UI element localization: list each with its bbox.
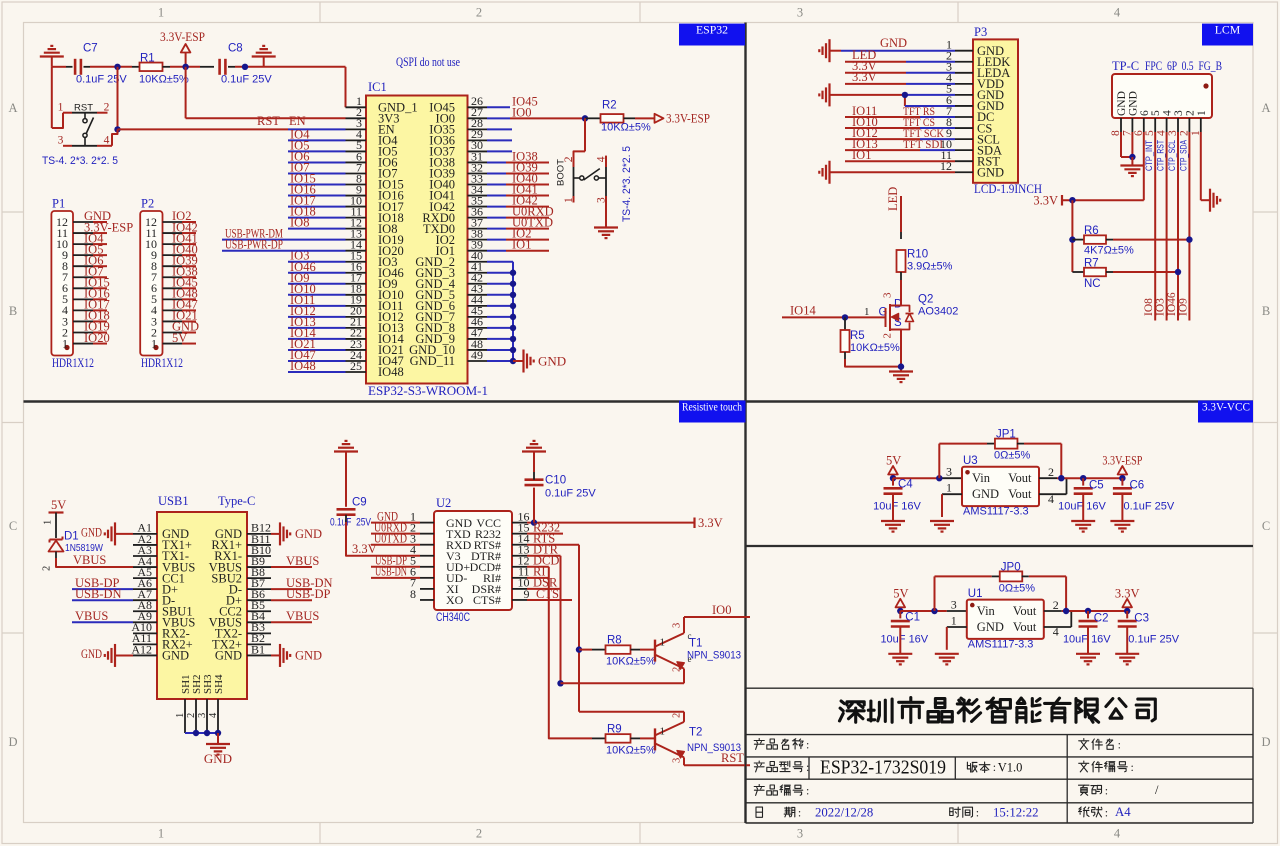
svg-text:3: 3 [1173,110,1185,116]
junction DTR-T1e [557,680,563,686]
U3 GND pin to ground [942,493,962,495]
ground (C4) [892,494,894,521]
svg-text:1: 1 [951,613,957,627]
wire net 3.3V (P3 pin3) [845,72,906,74]
wire net RI [527,577,549,579]
svg-text:1: 1 [62,336,68,350]
USB1 pin A1 [133,533,157,535]
junction C3 [1124,608,1130,614]
svg-text:B: B [9,304,17,318]
USB1 pin B6 [247,599,271,601]
junction GND bus [510,292,516,298]
ground (C5) [1082,494,1084,521]
svg-text:GND: GND [972,487,999,501]
wire C9 to U2 pin4 (3.3V) [345,515,347,522]
junction TP-C gnd [1129,154,1135,160]
wire net VBUS (A9) [72,621,133,623]
U2 pin 5 UD+ [420,566,434,568]
svg-text::: : [1105,784,1108,798]
svg-text:IO14: IO14 [790,304,816,318]
svg-text:IO20: IO20 [84,331,110,345]
svg-text:3.3V-ESP: 3.3V-ESP [160,30,205,44]
svg-text:AO3402: AO3402 [918,306,958,318]
net flag 3.3V (touch) [1061,195,1063,206]
svg-text:R8: R8 [607,635,622,647]
USB1 pin A5 [133,577,157,579]
IC1 pin 16 IO46 [346,272,367,274]
IC1 pin 11 IO18 [346,217,367,219]
svg-text:IC1: IC1 [368,80,387,94]
svg-text:Type-C: Type-C [218,494,255,508]
svg-text::: : [993,760,996,774]
wire net IO41 [487,195,506,197]
IC1 pin 40 GND_2 [468,261,488,263]
resistor R6 [1072,239,1084,241]
svg-text:GND: GND [880,36,907,50]
U2 pin 7 XI [420,588,434,590]
svg-text::: : [1131,760,1134,774]
svg-text:CTP_SDA: CTP_SDA [1178,139,1188,171]
U2 pin 16 VCC [512,522,527,524]
svg-text:GND: GND [538,353,566,368]
svg-text:ESP32-S3-WROOM-1: ESP32-S3-WROOM-1 [368,384,488,398]
svg-text:1: 1 [563,197,575,203]
wire 3.3V rail [1062,199,1144,201]
svg-text::: : [806,760,809,774]
svg-text:GND: GND [215,649,242,663]
svg-text:49: 49 [471,348,483,362]
P3 pin 9 SCL [955,138,973,140]
svg-text:XO: XO [446,593,464,607]
svg-text:10KΩ±5%: 10KΩ±5% [606,656,656,668]
wire T2 collector [579,711,684,713]
P3 pin 7 DC [955,116,973,118]
svg-text:EN: EN [289,114,306,128]
wire net IO6 [288,161,346,163]
svg-text:25: 25 [350,359,362,373]
USB1 pin A7 [133,599,157,601]
wire A12 gnd [115,654,133,656]
wire net DSR [527,588,561,590]
capacitor C5 [1080,475,1086,481]
svg-text:Resistive touch: Resistive touch [682,400,742,414]
svg-text:8: 8 [410,587,416,601]
TP-C pin 2 [1188,118,1190,132]
svg-text:IO0: IO0 [712,603,731,617]
svg-text:U3: U3 [963,455,978,467]
wire net USB-DP (A6) [72,588,133,590]
section label Resistive touch [679,401,746,423]
svg-text:3: 3 [946,465,952,479]
svg-text:IO48: IO48 [378,365,404,379]
svg-text:0.1uF 25V: 0.1uF 25V [330,517,371,529]
resistor R10 [897,250,906,272]
svg-text:RST: RST [257,114,280,128]
wire net DCD [527,566,549,568]
IC1 pin 9 IO16 [346,195,367,197]
IC1 pin 41 GND_3 [468,272,488,274]
ground (FG) [1209,189,1211,212]
svg-text:TS-4. 2*3. 2*2. 5: TS-4. 2*3. 2*2. 5 [42,155,118,167]
U2 pin 2 TXD [420,533,434,535]
svg-text:10KΩ±5%: 10KΩ±5% [606,745,656,757]
capacitor C8 [218,59,221,75]
svg-text:U0TXD: U0TXD [374,532,407,546]
junction R6 [1069,236,1075,242]
ground (C2) [1087,627,1089,654]
wire R8 to T1 base [631,649,641,651]
svg-text:CTP_SCL: CTP_SCL [1167,140,1177,171]
svg-text:1: 1 [158,6,164,20]
svg-text:VBUS: VBUS [73,553,106,567]
svg-text:R6: R6 [1084,225,1099,237]
wire net IO1 [487,250,506,252]
svg-text:VBUS: VBUS [286,554,319,568]
U2 pin 12 DCD# [512,566,527,568]
resistor R8 [579,649,592,651]
svg-text:GND: GND [295,527,322,541]
wire CTP_SCL (pin3) [1177,132,1179,321]
net flag 3.3V (U2) [693,518,695,529]
svg-text:LCM: LCM [1215,23,1241,37]
svg-text::: : [1105,806,1108,820]
IC1 pin 12 IO8 [346,228,367,230]
wire RTS vertical [578,545,580,712]
op-amp U3 AMS1117-3.3 body [962,467,1039,506]
IC1 pin 21 IO13 [346,327,367,329]
wire net IO4 [288,139,346,141]
svg-text:0Ω±5%: 0Ω±5% [999,582,1035,594]
wire bus to GND symbol [513,360,524,362]
svg-text:R1: R1 [140,53,155,65]
wire net IO3 [288,261,346,263]
wire net RST (T2 emitter) [684,764,750,766]
svg-text:CTS: CTS [536,587,559,601]
IC1 pin 44 GND_6 [468,305,488,307]
svg-text:IO9: IO9 [1177,298,1189,316]
U2 pin 9 CTS# [512,599,527,601]
IC1 pin 10 IO17 [346,206,367,208]
wire net USB-DP (B6) [271,599,312,601]
wire net IO1 (P3 pin11) [845,160,955,162]
svg-text:C3: C3 [1134,612,1149,624]
IC1 pin 24 IO47 [346,360,367,362]
wire rail down to IC pin1 [345,67,347,108]
svg-text:3.3V-ESP: 3.3V-ESP [666,112,710,126]
TP-C pin 5 [1154,118,1156,132]
wire GND bus pins 40-49 [487,261,513,263]
wire T1 emitter [561,682,685,684]
IC1 pin 2 3V3 [346,117,367,119]
wire 5V to U1 Vin [900,610,947,612]
svg-text:Vout: Vout [1008,471,1032,485]
junction shield [193,730,199,736]
svg-text:C6: C6 [1130,480,1145,492]
svg-text:10uF 16V: 10uF 16V [873,501,921,513]
junction switch-EN [114,126,120,132]
svg-text:CTP_INT: CTP_INT [1144,140,1154,171]
svg-text:R5: R5 [850,330,865,342]
ground (Q2) [889,370,913,372]
U2 pin 11 RI# [512,577,527,579]
USB1 pin A3 [133,555,157,557]
wire net IO46 [288,272,346,274]
junction IO0-R2 [582,115,588,121]
svg-text::: : [806,738,809,752]
wire net LED (P3 pin2) [845,61,906,63]
svg-text:3: 3 [797,6,803,20]
USB1 pin B5 [247,610,271,612]
svg-text:Vout: Vout [1013,604,1037,618]
svg-text:4: 4 [1053,625,1059,639]
svg-text:1: 1 [864,306,870,318]
U2 pin 10 DSR# [512,588,527,590]
IC1 pin 30 IO37 [468,150,488,152]
svg-text:GND: GND [81,525,102,539]
svg-text:TP-C: TP-C [1112,59,1139,73]
IC1 pin 33 IO40 [468,184,488,186]
TP-C pin 7 [1131,118,1133,132]
svg-text:NPN_S9013: NPN_S9013 [687,650,741,662]
svg-text:R2: R2 [602,100,617,112]
svg-text:R10: R10 [907,249,928,261]
ground (U1) [935,653,959,655]
ground (A1) [114,522,116,545]
wire net IO13 / TFT SDI [845,149,920,151]
svg-text:U2: U2 [436,496,451,510]
wire net USB-PWR-DM (IO19) [222,239,346,241]
svg-text:ESP32-1732S019: ESP32-1732S019 [820,757,946,779]
USB1 pin A4 [133,566,157,568]
wire net IO40 [487,184,506,186]
svg-text:VBUS: VBUS [286,609,319,623]
svg-text:BOOT: BOOT [556,159,567,186]
USB1 pin B8 [247,577,271,579]
wire net IO16 [288,195,346,197]
IC1 pin 17 IO9 [346,283,367,285]
USB1 pin A9 [133,621,157,623]
TP-C pin 3 [1177,118,1179,132]
label 日期 [756,807,763,817]
wire switch pin4 [112,129,118,145]
P3 pin 6 GND [955,105,973,107]
wire net IO14 [288,338,346,340]
svg-text:IO1: IO1 [852,148,871,162]
ground (C1) [899,627,901,654]
svg-text:6: 6 [1139,110,1151,116]
svg-text:5V: 5V [172,331,187,345]
svg-text:4: 4 [208,712,219,718]
svg-text:Vin: Vin [972,471,991,485]
svg-text:C4: C4 [898,479,913,491]
svg-text:B: B [1262,304,1270,318]
IC1 pin 32 IO39 [468,172,488,174]
svg-text:1: 1 [946,481,952,495]
svg-text:Vin: Vin [977,604,996,618]
label 产品名称 [758,739,760,740]
svg-text:NC: NC [1084,278,1101,290]
label 文件名 [1083,739,1085,740]
svg-text:LED: LED [886,187,900,211]
wire P3 pins 5-6 to ground [830,94,905,96]
capacitor C10 [533,488,535,523]
capacitor C7 [74,59,77,75]
svg-text:10KΩ±5%: 10KΩ±5% [601,122,651,134]
USB1 pin B1 [247,654,271,656]
wire net IO42 [487,206,506,208]
svg-text:USB1: USB1 [158,494,189,508]
ground (BOOT) [594,226,618,228]
svg-text:IO1: IO1 [512,238,531,252]
wire net USB-PWR-DP (IO20) [222,250,346,252]
wire R9 to T2 base [631,737,641,739]
IC1 pin 8 IO15 [346,184,367,186]
wire VCC to 3.3V flag [527,522,694,524]
wire net R232 [527,533,563,535]
svg-text:2022/12/28: 2022/12/28 [815,806,873,820]
USB1 pin A10 [133,632,157,634]
wire net USB-DN (A7) [72,599,133,601]
TP-C pin 1 [1200,118,1202,132]
svg-text:10uF 16V: 10uF 16V [880,633,928,645]
svg-text:10KΩ±5%: 10KΩ±5% [850,342,900,354]
svg-text:AMS1117-3.3: AMS1117-3.3 [968,638,1034,650]
wire R7 to CTP_SCL [1106,271,1113,273]
svg-text:4: 4 [1114,6,1121,20]
wire net IO9 [288,283,346,285]
svg-text:0.1uF 25V: 0.1uF 25V [545,488,596,500]
svg-text:C8: C8 [228,43,243,55]
wire net IO5 [288,150,346,152]
wire net U0RXD [371,533,420,535]
svg-text:4: 4 [1114,827,1121,841]
op-amp U1 IC1 ESP32-S3-WROOM-1 body [366,96,468,384]
svg-text:3: 3 [951,597,957,611]
wire net IO48 [288,371,346,373]
junction EN node [114,64,120,70]
svg-text:Vout: Vout [1008,487,1032,501]
junction 5V-C4 [890,475,896,481]
wire net USB-DP (U2) [371,566,420,568]
P3 pin 1 GND [955,50,973,52]
resistor JP1 0ohm bypass [938,444,940,479]
svg-text:2: 2 [476,827,482,841]
svg-text:IO48: IO48 [290,359,316,373]
ground (C3) [1126,627,1128,654]
junction rail-gnd2 [242,64,248,70]
IC1 pin 35 IO42 [468,206,488,208]
svg-text:1: 1 [158,827,164,841]
USB1 pin A11 [133,643,157,645]
wire net IO12 [288,316,346,318]
wire D1 to VBUS row [55,552,57,559]
wire net RST/EN to IC pin3 [118,128,289,130]
ground (C9) [334,450,358,452]
svg-text:C2: C2 [1094,612,1109,624]
IC1 pin 3 EN [346,128,367,130]
USB1 pin B4 [247,621,271,623]
wire net IO2 [487,239,506,241]
svg-text:GND: GND [81,647,102,661]
svg-text:0.1uF 25V: 0.1uF 25V [1128,633,1179,645]
USB1 pin B10 [247,555,271,557]
resistor R9 [606,734,631,743]
wire net IO21 [288,349,346,351]
wire IO0 junction down to BOOT switch [584,118,586,151]
svg-text:3.9Ω±5%: 3.9Ω±5% [907,261,953,273]
svg-text:GND_11: GND_11 [410,354,455,368]
ground GND (IC1) [522,349,524,372]
junction GND bus [510,325,516,331]
wire 3.3V-ESP down to IC pin2 [185,67,187,119]
USB1 pin B2 [247,643,271,645]
USB1 pin B7 [247,588,271,590]
svg-text:USB-PWR-DP: USB-PWR-DP [225,238,283,252]
label 时间 [950,808,953,816]
U2 pin 14 RTS# [512,544,527,546]
svg-text:A4: A4 [1115,805,1131,819]
wire net IO0 [487,117,510,119]
ground (TP-C 8,7) [1131,157,1133,166]
svg-text:GND: GND [204,751,232,766]
svg-text:GND: GND [162,649,189,663]
divider 3.3V-VCC sections [746,545,1254,547]
capacitor C9 [345,452,347,507]
wire CTP_RST (pin4) [1166,132,1168,321]
IC1 pin 29 IO36 [468,139,488,141]
svg-text:1: 1 [660,726,666,738]
wire net IO11 [288,305,346,307]
svg-text:15:12:22: 15:12:22 [993,806,1039,820]
svg-text::: : [1118,738,1121,752]
IC1 pin 38 IO2 [468,239,488,241]
svg-text:3.3V: 3.3V [698,516,723,530]
IC1 pin 47 GND_9 [468,338,488,340]
wire net CTS [527,599,572,601]
wire net RTS [527,544,579,546]
USB1 pin B12 [247,533,271,535]
power arrow 3.3V-ESP [655,114,664,123]
wire net USB-DN (B7) [271,588,312,590]
ground (P3 pins 5-6) [828,83,830,106]
label 产品型号 [758,761,760,762]
svg-text:2: 2 [476,6,482,20]
wire 3.3V to R6/R7 [1071,200,1073,272]
svg-text:GND: GND [295,649,322,663]
svg-text::: : [806,784,809,798]
svg-text:1: 1 [660,637,666,649]
IC1 pin 43 GND_5 [468,294,488,296]
P3 pin 5 GND [955,94,973,96]
wire C7-R1 (EN node) [84,66,91,68]
P3 pin 2 LEDK [955,61,973,63]
wire R5 to source/ground [844,352,846,359]
svg-text:IO46: IO46 [1166,292,1178,316]
svg-text:/: / [1155,783,1159,797]
svg-text:C10: C10 [545,475,566,487]
P3 pin 4 VDD [955,83,973,85]
svg-text:R9: R9 [607,724,622,736]
ground (A12) [114,644,116,667]
svg-text:GND: GND [977,620,1004,634]
svg-text:3: 3 [882,292,894,298]
svg-text:R7: R7 [1084,258,1099,270]
svg-text:HDR1X12: HDR1X12 [52,356,94,370]
op-amp U1 AMS1117-3.3 body [967,600,1044,639]
company name 深圳市晶彩智能有限公司 [841,701,844,704]
wire DCD vertical [549,567,592,739]
svg-text:QSPI do not use: QSPI do not use [396,55,460,69]
